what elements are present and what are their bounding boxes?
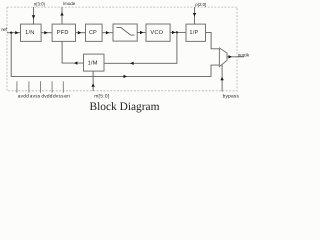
divider 1/N [21,24,42,41]
svg-text:lmode: lmode [63,1,76,6]
arrowhead into CP [78,31,81,34]
arrowhead n[3:0] down [32,15,35,18]
wire VCO to 1/P [170,31,186,33]
arrowhead p[2:0] down [193,13,196,16]
arrowhead into 1/N [15,31,18,34]
low-pass response symbol [116,28,134,35]
oscillator VCO [146,24,170,41]
junction ref/bypass [10,32,12,34]
svg-text:Block Diagram: Block Diagram [90,101,160,113]
svg-text:m[5:0]: m[5:0] [94,93,109,99]
svg-text:bypass: bypass [223,93,240,99]
charge pump CP [86,24,103,41]
svg-text:CP: CP [89,30,97,36]
arrowhead bypass path (rightward) [124,75,127,78]
svg-text:dvss: dvss [53,93,64,99]
svg-text:en: en [64,94,70,99]
divider 1/P [186,24,206,41]
wire bypass select into mux [221,65,223,92]
svg-text:1/N: 1/N [25,29,34,36]
wire p[2:0] into 1/P top [194,7,196,24]
arrowhead into filter [106,31,109,34]
arrowhead outclk right [229,55,232,58]
svg-text:VCO: VCO [150,30,163,36]
arrowhead after VCO [172,31,175,34]
wire n[3:0] into 1/N top [33,7,35,24]
power pin avdd [16,81,18,92]
arrowhead into PFD [44,31,47,34]
svg-text:n[3:0]: n[3:0] [34,2,45,7]
svg-text:PFD: PFD [57,30,69,36]
phase-frequency detector PFD [52,24,75,41]
mux (clock select) [219,48,227,67]
wire mux output outclk [227,56,244,58]
arrowhead into VCO [140,31,143,34]
wire filter to VCO [137,32,146,34]
svg-text:1/M: 1/M [88,59,98,66]
wire feedback VCO junction to 1/M [104,32,177,63]
power pin avss [28,81,30,92]
wire 1/P to mux top input [206,32,220,48]
arrowhead lmode up [60,12,63,15]
pin en [62,81,64,92]
arrowhead toward PFD (leftward) [74,61,77,64]
wire bypass clock path ref to mux lower input [11,33,219,77]
svg-text:1/P: 1/P [189,29,198,36]
chip boundary frame [7,7,237,91]
wire ref to 1/N [7,32,21,34]
wire lmode from PFD top [61,7,63,24]
svg-text:avss: avss [30,94,41,99]
wire PFD to CP [76,32,86,34]
divider 1/M [84,54,105,71]
loop filter box [113,24,137,41]
arrowhead into 1/M (leftward) [130,62,133,65]
arrowhead m[5:0] up [91,83,94,86]
wire 1/N to PFD [41,32,52,34]
power pin dvdd [40,81,42,92]
svg-text:dvdd: dvdd [41,93,52,99]
junction VCO output / feedback [176,31,178,33]
arrowhead bypass up [220,77,223,80]
wire m[5:0] into 1/M bottom [92,71,94,91]
wire CP to loop filter [102,32,113,34]
svg-text:ref: ref [1,27,7,32]
svg-text:avdd: avdd [18,93,29,99]
power pin dvss [51,81,53,92]
svg-text:p[2:0]: p[2:0] [195,2,206,7]
wire 1/M to PFD feedback input [62,41,83,63]
